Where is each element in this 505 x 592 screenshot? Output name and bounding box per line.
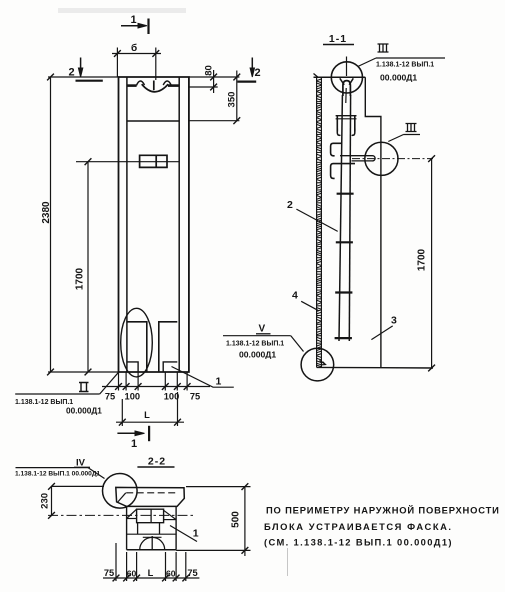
front view: right bottom slot	[159, 322, 178, 372]
svg-text:75: 75	[190, 392, 200, 402]
svg-text:2: 2	[287, 199, 293, 211]
front view: top shoulder thick line right	[168, 84, 179, 87]
callout V: shelf line	[223, 335, 291, 337]
section 2-2: bottom groove chord	[143, 536, 162, 538]
svg-text:350: 350	[227, 92, 238, 108]
tie rod end loop	[373, 156, 376, 161]
dimension b: center extension line	[155, 48, 157, 81]
front view: left bottom slot	[127, 322, 147, 372]
front view: embedded fixture plate	[140, 155, 167, 167]
dimension 500: dim line	[244, 487, 246, 556]
dimension 500: extension top	[186, 486, 251, 488]
section 2-2: left diagonal	[127, 509, 137, 518]
tie rod to wall upper line	[340, 155, 373, 157]
section 2-2: interior horizontal at 534	[127, 533, 177, 535]
svg-text:2-2: 2-2	[148, 456, 166, 468]
ladder rod left rail	[339, 95, 342, 341]
ladder rod centerline above circle	[346, 57, 348, 77]
section mark 2 right: down arrow	[251, 58, 253, 74]
dimension b: left extension line	[116, 48, 118, 78]
svg-text:500: 500	[231, 511, 242, 528]
section mark 2 left: down arrow	[80, 58, 82, 74]
svg-text:L: L	[144, 410, 150, 420]
label 1 with leader in section 2-2	[170, 526, 197, 542]
svg-text:1: 1	[131, 14, 137, 26]
svg-text:б: б	[131, 42, 137, 54]
section 2-2: bottom edge	[127, 549, 177, 551]
lifting loop inner tick	[345, 88, 347, 103]
svg-text:1.138.1-12 ВЫП.1: 1.138.1-12 ВЫП.1	[376, 62, 434, 69]
svg-text:75: 75	[187, 568, 197, 578]
section 1-1: bottom edge	[317, 366, 433, 369]
svg-text:230: 230	[40, 493, 51, 509]
svg-text:1.138.1-12 ВЫП.1: 1.138.1-12 ВЫП.1	[226, 341, 284, 348]
section 1-1: left edge inner line	[320, 77, 322, 367]
section 2-2: hidden dashed line in flange	[126, 492, 176, 494]
section 2-2: keyway divider	[150, 509, 152, 523]
front view: right slot bottom step	[163, 362, 177, 372]
center dash-dot line through middle circle to 1700 dim	[352, 158, 433, 160]
svg-text:3: 3	[391, 315, 397, 327]
callout circle III middle	[365, 142, 398, 175]
svg-text:75: 75	[105, 392, 115, 402]
dimension 1700 left: top extension line	[76, 161, 179, 163]
section 2-2: horizontal centerline dash-dot	[48, 514, 195, 516]
front view bottom edge extension to left	[48, 371, 119, 373]
section 2-2: web left edge	[126, 506, 128, 549]
front view: inner right wall line	[178, 77, 180, 372]
dimension 500: extension bottom	[176, 549, 250, 551]
svg-text:1700: 1700	[75, 267, 86, 290]
ladder rod right rail	[349, 95, 350, 341]
svg-text:1.138.1-12 ВЫП.1: 1.138.1-12 ВЫП.1	[15, 399, 73, 406]
ladder rung 1	[337, 193, 354, 195]
front view: inner left wall line	[126, 77, 128, 372]
section 2-2: bottom groove right arc	[152, 537, 164, 549]
section mark 1 bottom: cutting bar	[148, 426, 150, 441]
leader 1 from right slot	[172, 367, 234, 388]
bottom dim extension lines	[118, 372, 120, 391]
svg-text:80: 80	[204, 65, 215, 76]
svg-text:60: 60	[127, 569, 137, 579]
section 1-1: right outline upper with step	[365, 77, 381, 367]
front view: block outer outline	[119, 77, 189, 372]
lifting loop in section: splay right	[349, 78, 353, 85]
callout III middle: underline	[404, 134, 421, 136]
section 2-2: flange outline	[116, 487, 185, 506]
extension line top right at y77	[189, 76, 240, 78]
svg-text:00.000Д1: 00.000Д1	[380, 73, 417, 83]
detail callout ellipse II around left slot	[121, 308, 153, 377]
section 1-1: top edge	[314, 76, 366, 78]
svg-text:1: 1	[216, 376, 222, 388]
callout circle IV	[103, 474, 138, 509]
detail II leader line	[15, 393, 100, 395]
dimension 1700 left: dim line	[87, 162, 89, 372]
callout III middle: leader	[388, 135, 403, 142]
section 2-2: keyway lower box	[138, 523, 160, 535]
front view: fixture divider	[155, 155, 157, 167]
section 2-2: web right edge	[175, 506, 177, 549]
dimension b top: dim line	[112, 53, 161, 55]
callout circle III top	[331, 62, 362, 93]
callout III middle: roman numeral	[406, 124, 417, 132]
corner chamfer mark inside circle V	[320, 361, 326, 365]
dimension 230: dim line	[51, 486, 53, 515]
front view: lifting loop small arc left	[136, 81, 144, 85]
callout V: leader to circle	[291, 336, 304, 352]
section 2-2: bottom groove left arc	[140, 537, 152, 549]
front view: loop center tick	[153, 81, 155, 91]
svg-text:1: 1	[193, 528, 199, 540]
ladder rung 3	[335, 291, 352, 293]
section 1-1: rough hatching on left edge	[317, 79, 322, 367]
svg-text:100: 100	[125, 392, 141, 402]
ladder rung 4	[335, 337, 352, 339]
svg-text:4: 4	[292, 290, 298, 302]
svg-text:60: 60	[166, 569, 176, 579]
svg-text:2380: 2380	[41, 201, 52, 224]
callout III top: reference shelf line	[376, 57, 445, 59]
tie rod to wall lower line	[352, 160, 373, 162]
dimension 1700 right: dim line	[431, 159, 433, 368]
svg-text:1.138.1-12 ВЫП.1 00.000Д1: 1.138.1-12 ВЫП.1 00.000Д1	[15, 471, 101, 478]
splice clamp outer bars	[336, 116, 338, 132]
svg-text:75: 75	[104, 568, 114, 578]
callout III top: roman numeral	[378, 44, 389, 52]
svg-text:1700: 1700	[417, 248, 428, 271]
front view: lifting loop big arc	[142, 84, 169, 92]
section 2-2: groove center line	[151, 536, 153, 550]
dimension 2380: top extension line	[48, 76, 119, 78]
section 2-2 bottom dims: extension lines	[115, 543, 117, 581]
lifting loop in section: arch	[343, 81, 351, 96]
dimension L: extension lines	[121, 399, 123, 426]
extension line at y87	[189, 86, 218, 88]
svg-text:00.000Д1: 00.000Д1	[66, 406, 102, 416]
detail label II	[79, 383, 89, 392]
faint scan fold line	[287, 548, 289, 576]
svg-text:00.000Д1: 00.000Д1	[239, 350, 276, 360]
section 2-2 bottom dim line	[103, 577, 199, 579]
section mark 1 top: arrow line	[121, 25, 144, 27]
front view: left slot bottom step	[127, 362, 138, 372]
section 2-2: left chamfer line	[118, 493, 126, 502]
svg-text:(СМ. 1.138.1-12 ВЫП.1 00.000: (СМ. 1.138.1-12 ВЫП.1 00.000Д1)	[264, 537, 453, 548]
dimension L: dim line	[116, 421, 184, 423]
svg-text:1: 1	[131, 438, 137, 450]
bottom dim line 75-100-100-75	[102, 386, 210, 388]
section mark 1 top: cutting bar	[147, 19, 149, 35]
splice clamp right hook	[352, 129, 355, 136]
svg-text:L: L	[148, 568, 154, 578]
dimension 80: dim line	[213, 70, 215, 93]
callout III top: leader from circle	[358, 58, 376, 67]
dimension 350: dim line	[236, 71, 238, 121]
section 2-2: keyway upper box	[137, 509, 164, 523]
svg-text:БЛОКА УСТРАИВАЕТСЯ ФАСКА.: БЛОКА УСТРАИВАЕТСЯ ФАСКА.	[264, 521, 453, 532]
front view: lifting loop small arc right	[163, 81, 171, 85]
dimension 2380: dim line	[50, 77, 52, 372]
callout circle V bottom corner	[301, 348, 334, 381]
left S-hook lower	[331, 164, 355, 179]
svg-text:2: 2	[255, 67, 261, 79]
left S-hook upper	[331, 143, 342, 156]
callout IV: shelf line and leader	[16, 467, 89, 469]
section 1-1: top-left corner tick	[314, 74, 319, 78]
svg-text:1-1: 1-1	[329, 33, 347, 45]
section mark 2 right: cutting bar	[237, 80, 256, 82]
lifting loop in section: splay left	[340, 78, 344, 85]
section mark 1 bottom: arrow line	[117, 432, 141, 434]
dimension 230: extension top	[52, 485, 105, 487]
front view: inner horizontal line at 350 level	[127, 120, 179, 122]
section 2-2: right diagonal	[164, 510, 177, 519]
svg-text:ПО ПЕРИМЕТРУ НАРУЖНОЙ ПОВЕРХ: ПО ПЕРИМЕТРУ НАРУЖНОЙ ПОВЕРХНОСТИ	[266, 505, 500, 516]
section mark 2 left: cutting bar	[76, 80, 103, 82]
splice clamp left hook	[337, 129, 340, 136]
section 2-2: right shoulder line	[164, 519, 177, 521]
section 2-2: left shoulder line	[127, 518, 137, 520]
extension line at 350 level	[189, 120, 240, 122]
svg-text:V: V	[259, 324, 266, 335]
splice clamp top bars	[336, 115, 357, 117]
faint smudge top	[58, 8, 186, 13]
ladder rung 2	[336, 241, 353, 243]
section 1-1: left edge outer line	[316, 77, 318, 367]
front view: top shoulder thick line left	[127, 84, 137, 87]
